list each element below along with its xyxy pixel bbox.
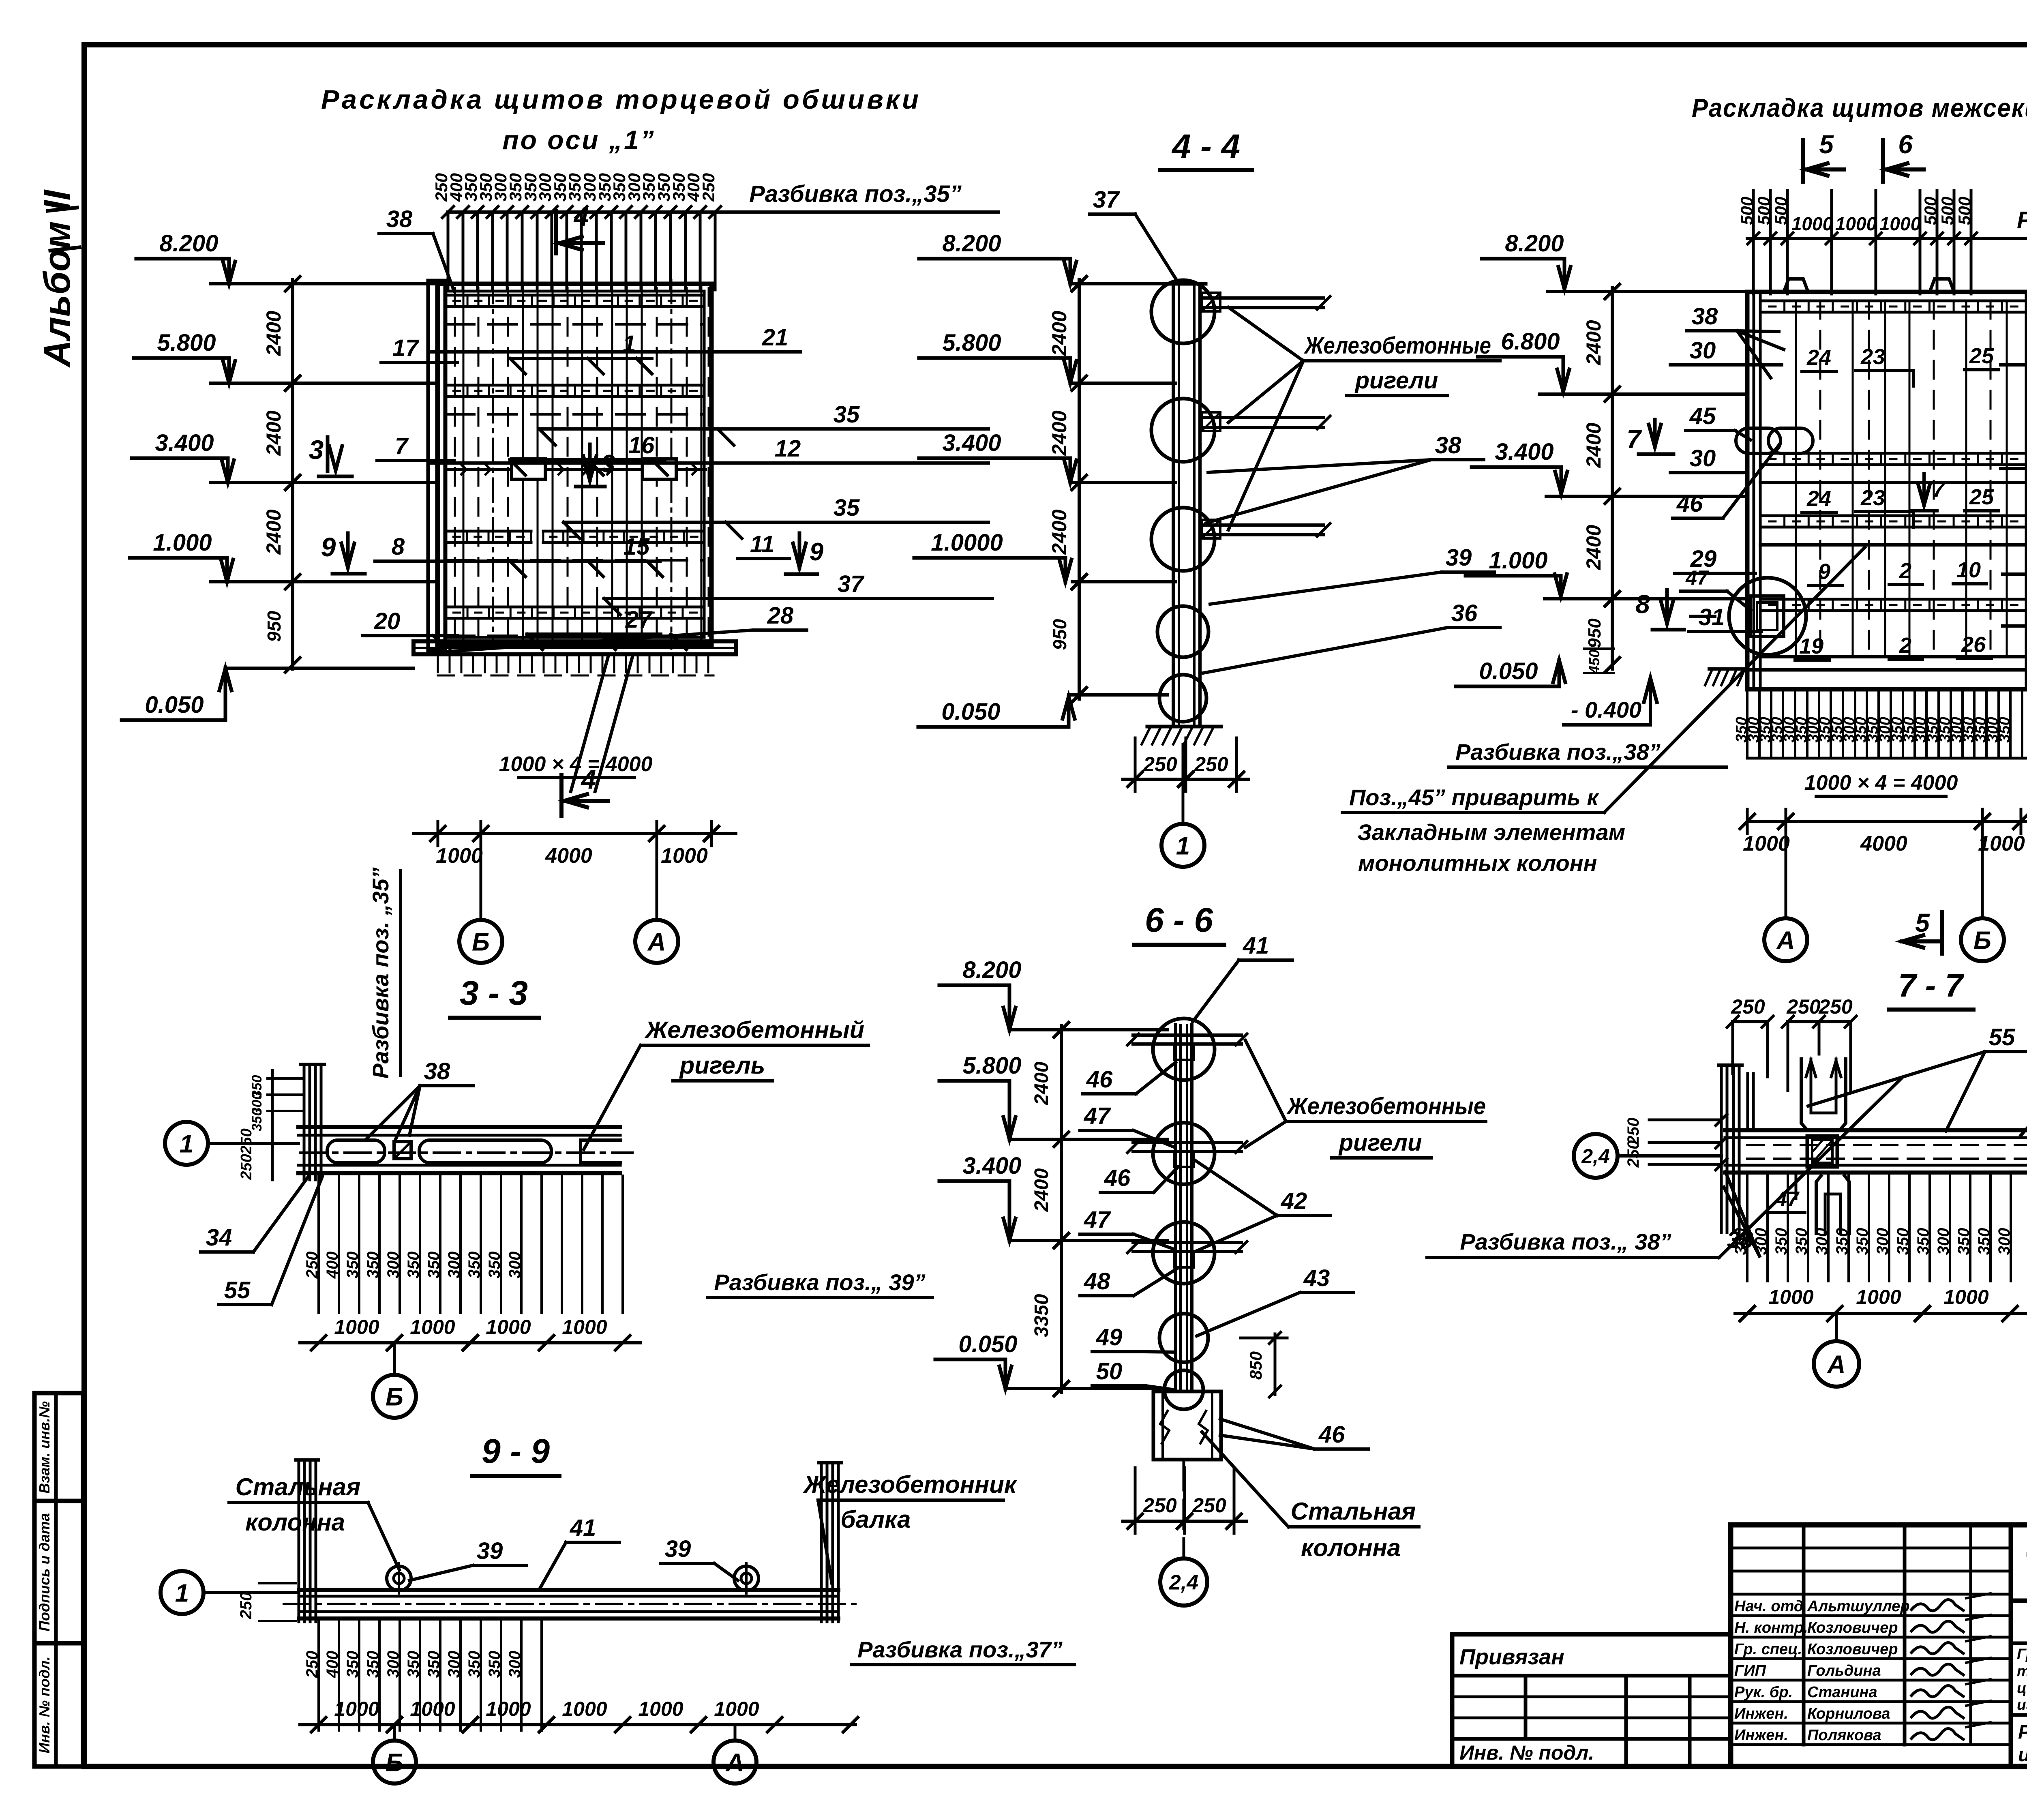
svg-text:19: 19 [1799,634,1823,658]
svg-text:Б: Б [386,1383,403,1411]
svg-text:ГИП: ГИП [1734,1662,1766,1679]
svg-text:24: 24 [1806,345,1831,370]
svg-text:и межсекционной обшивок: и межсекционной обшивок [2018,1744,2027,1766]
svg-text:250: 250 [1786,995,1821,1018]
view6 axis bubble 1 [161,1571,204,1614]
view3 level lines [1547,290,1747,293]
svg-text:6.800: 6.800 [1501,328,1560,355]
view1 level lines [211,282,438,285]
svg-text:Стальная: Стальная [1291,1498,1416,1525]
view6 axis bubbles Б А [393,1725,396,1741]
svg-text:0.050: 0.050 [1479,658,1538,684]
svg-text:2400: 2400 [1031,1168,1052,1212]
svg-text:300: 300 [506,1651,524,1678]
view5 left small dims [268,1077,303,1080]
svg-text:350: 350 [364,1252,382,1279]
svg-text:1000: 1000 [1879,213,1921,234]
svg-text:250: 250 [1143,753,1177,776]
svg-text:37: 37 [838,571,865,597]
svg-text:30: 30 [1690,337,1716,364]
view3 horizontal floor bands [1760,300,2026,302]
svg-text:Н. контр.: Н. контр. [1734,1619,1808,1636]
view1 dashed line under top band [446,323,704,326]
view7 leader [1202,1432,1288,1527]
svg-text:Альбом II: Альбом II [36,189,78,368]
svg-text:А: А [1776,926,1795,954]
svg-text:1000: 1000 [410,1316,455,1338]
svg-text:1000: 1000 [714,1698,759,1720]
view5 below-bar dim lines [317,1176,320,1313]
view1 axis lines down to bubbles [480,846,482,920]
view1 axis bubble Б [459,920,502,963]
svg-text:ригель: ригель [679,1052,765,1079]
view1 section mark 3 (inner) [588,444,592,480]
view5 center dash-dot axis [300,1151,632,1154]
view2 hatch squares at joints [1202,293,1220,311]
svg-text:350: 350 [1975,1228,1993,1255]
svg-text:0.050: 0.050 [941,699,1000,725]
svg-text:2,4: 2,4 [1169,1571,1198,1595]
svg-text:1: 1 [180,1130,193,1158]
svg-text:35: 35 [834,495,860,521]
svg-text:5.800: 5.800 [962,1053,1021,1079]
svg-text:1000: 1000 [1791,213,1833,234]
svg-text:450: 450 [1586,650,1603,674]
view8 left column [1720,1065,1723,1233]
title block top border [1731,1522,2027,1528]
view7 dim 850 [1274,1334,1277,1395]
svg-text:1000: 1000 [410,1698,455,1720]
svg-text:31: 31 [1699,604,1725,630]
svg-text:Козловичер: Козловичер [1807,1619,1898,1636]
svg-text:тиляторами 3ВГ25 капельная с с: тиляторами 3ВГ25 капельная с сек- [2017,1663,2027,1679]
view6 left end column [298,1460,300,1622]
view6 dim row 1000s [300,1723,855,1726]
view1 horizontal band at level 2 [446,384,704,387]
svg-text:Гр. спец.: Гр. спец. [1734,1641,1802,1658]
view1 horizontal band at level 4 [446,606,704,609]
svg-text:250: 250 [1818,995,1853,1018]
view7 small hatch boxes [1174,1044,1193,1060]
view7 dim chain [1060,1026,1063,1393]
svg-text:1.000: 1.000 [1489,547,1547,574]
view1 panel dashed panel edges [454,288,456,641]
view3 left vertical dimension chain [1611,288,1614,669]
svg-text:8: 8 [392,534,405,560]
svg-text:2400: 2400 [1048,509,1071,555]
view5 small square fixture [394,1142,411,1159]
view1 panel outline [438,284,711,645]
svg-text:24: 24 [1806,487,1831,511]
view3 internal dashed lines [1819,301,1821,657]
view3 top dim chain line [1747,237,2027,240]
svg-text:500: 500 [1955,197,1974,225]
svg-text:Железобетонник: Железобетонник [803,1471,1018,1498]
svg-text:39: 39 [1446,544,1472,571]
svg-text:37: 37 [1093,187,1120,213]
view5 axis bubble 1 [165,1122,208,1165]
svg-text:ригели: ригели [1354,367,1438,394]
view1 horizontal line of top dim chain / Razbivka leader [448,210,998,214]
svg-text:Альтшуллер: Альтшуллер [1807,1598,1910,1615]
view5 left column of section [303,1064,306,1180]
svg-text:25: 25 [1969,485,1994,509]
svg-text:2400: 2400 [1048,410,1071,456]
svg-text:250: 250 [237,1592,255,1620]
svg-text:350: 350 [249,1108,265,1132]
svg-text:Корнилова: Корнилова [1807,1705,1890,1722]
svg-text:35: 35 [834,401,860,428]
view8 left side dims 250/250 [1649,1119,1721,1121]
svg-text:350: 350 [344,1252,362,1279]
view2 ground hatch at base [1147,725,1221,729]
svg-text:Нач. отд: Нач. отд [1734,1598,1803,1615]
view7 fan leaders [1245,1040,1286,1121]
svg-text:3350: 3350 [1031,1294,1052,1337]
svg-text:38: 38 [1435,432,1461,459]
view1 section mark 4 (bottom) [559,775,564,816]
svg-text:500: 500 [1771,197,1790,225]
svg-text:10: 10 [1956,558,1981,582]
svg-text:Раскладка щитов межсекционной: Раскладка щитов межсекционной обшивки [1692,93,2027,122]
svg-text:350: 350 [465,1651,483,1678]
view1 leader lines to section 4 bottom [571,657,608,791]
svg-text:15: 15 [624,534,650,560]
view7 column shaft [1174,1025,1177,1391]
view7 dim 250 250 [1134,1468,1137,1533]
svg-text:45: 45 [1689,403,1716,429]
view8 axis bubble 2,4 left [1574,1134,1618,1178]
svg-text:9: 9 [1818,560,1830,584]
svg-text:4000: 4000 [1860,832,1907,855]
view5 right open channel [581,1140,620,1163]
view8 left wing plates [1746,1074,1749,1130]
view6 right end column [820,1463,823,1622]
svg-text:250: 250 [1194,753,1228,776]
view1 left mounting strip [428,281,445,650]
svg-text:Поз.„45” приварить к: Поз.„45” приварить к [1349,785,1599,810]
view5 axis bubble Б [393,1343,396,1374]
svg-text:500: 500 [1737,197,1756,225]
svg-text:Раскладка щитов торцевой обшив: Раскладка щитов торцевой обшивки [321,84,921,114]
svg-text:9 - 9: 9 - 9 [482,1432,550,1470]
svg-text:55: 55 [1989,1024,2015,1050]
svg-text:350: 350 [344,1651,362,1678]
svg-text:1000: 1000 [334,1698,379,1720]
title block privyazan box [1452,1634,1731,1766]
svg-text:9: 9 [321,532,336,562]
svg-text:1000: 1000 [1978,832,2025,855]
svg-text:250: 250 [303,1252,321,1279]
svg-text:250: 250 [1624,1140,1642,1168]
svg-text:47: 47 [1084,1207,1111,1233]
view1 horizontal band at level 3 [446,530,531,533]
svg-text:250: 250 [1192,1494,1226,1517]
svg-text:2400: 2400 [1582,525,1605,570]
svg-text:Рук. бр.: Рук. бр. [1734,1684,1793,1701]
signature squiggles [1911,1599,1963,1611]
svg-text:из железобетонных элементов: из железобетонных элементов [2017,1696,2027,1713]
svg-text:49: 49 [1096,1324,1123,1351]
svg-text:3.400: 3.400 [942,430,1001,456]
svg-text:34: 34 [206,1224,232,1251]
svg-text:350: 350 [1793,1228,1811,1255]
view2 detail circles on column [1151,280,1215,343]
svg-text:3: 3 [601,450,615,478]
svg-text:1000: 1000 [562,1316,607,1338]
svg-text:7: 7 [1933,477,1946,502]
svg-text:Инв. № подл.: Инв. № подл. [36,1656,53,1753]
view3 ground hatch left [1709,667,1745,671]
svg-text:Инжен.: Инжен. [1734,1705,1788,1722]
svg-text:350: 350 [364,1651,382,1678]
svg-text:23: 23 [1860,486,1885,510]
svg-text:4000: 4000 [545,844,592,868]
svg-text:300: 300 [1995,1228,2013,1255]
svg-text:7: 7 [1626,424,1642,454]
svg-text:950: 950 [1049,619,1070,650]
svg-text:Раскладка щитов торцевой: Раскладка щитов торцевой [2018,1721,2027,1743]
view3 section mark 5 bottom [1940,912,1944,954]
svg-text:50: 50 [1096,1358,1123,1385]
view6 bolts [387,1566,411,1591]
svg-text:250: 250 [238,1154,255,1180]
svg-text:5: 5 [1915,908,1930,937]
svg-text:Полякова: Полякова [1807,1727,1881,1744]
view8 lower U channel [1816,1176,1821,1233]
view7 axis bubble 2,4 [1183,1462,1185,1558]
svg-text:350: 350 [405,1252,422,1279]
svg-text:2400: 2400 [1582,422,1605,468]
svg-text:1000: 1000 [486,1316,531,1338]
svg-text:Взам. инв.№: Взам. инв.№ [36,1401,53,1494]
svg-text:250: 250 [1731,995,1765,1018]
view1 section mark 9 (inner right) [798,533,801,568]
svg-text:8.200: 8.200 [159,230,218,257]
svg-text:46: 46 [1318,1421,1345,1448]
svg-text:3.400: 3.400 [155,430,214,456]
svg-text:Б: Б [472,928,490,956]
view1 axis bubble А [635,920,678,963]
svg-text:2: 2 [1899,633,1911,658]
svg-text:Железобетонные: Железобетонные [1303,332,1491,359]
svg-text:350: 350 [425,1252,443,1279]
svg-text:Разбивка поз. „40”: Разбивка поз. „40” [2017,207,2027,233]
svg-text:250: 250 [238,1128,255,1154]
view7 level lines [1009,1028,1168,1031]
view3 internal verticals [1795,301,1797,657]
svg-text:21: 21 [762,324,789,351]
view1 foundation tick row [437,654,439,672]
view7 detail circles [1153,1018,1215,1080]
svg-text:Разбивка поз.„ 38”: Разбивка поз.„ 38” [1460,1229,1671,1254]
svg-text:1000: 1000 [1943,1286,1988,1308]
svg-text:1000 × 4 = 4000: 1000 × 4 = 4000 [499,752,653,776]
svg-text:6: 6 [1898,130,1913,159]
view1 horizontal band at top [446,294,704,297]
svg-text:17: 17 [392,335,420,361]
svg-text:А: А [725,1749,744,1777]
view3 bottom band [1760,655,2026,658]
svg-text:46: 46 [1676,491,1703,517]
view8 dashed lines in bar [1747,1144,2027,1146]
svg-text:300: 300 [1874,1228,1892,1255]
svg-text:350: 350 [1853,1228,1871,1255]
svg-text:0.050: 0.050 [958,1331,1017,1357]
view3 below-panel rotated dims [1746,689,1748,758]
svg-text:350: 350 [1894,1228,1912,1255]
svg-text:Б: Б [386,1749,403,1777]
svg-text:А: А [1827,1351,1846,1378]
svg-text:Гольдина: Гольдина [1807,1662,1881,1679]
view1 panel internal dash-dot axes [492,280,494,649]
svg-text:300: 300 [1813,1228,1831,1255]
svg-text:Железобетонные: Железобетонные [1286,1093,1486,1119]
svg-text:Разбивка поз.„38”: Разбивка поз.„38” [1455,739,1661,765]
view5 dim row 1000s [300,1341,641,1344]
svg-text:400: 400 [324,1252,341,1279]
view3 section mark 5 (top) [1801,140,1805,182]
left stamp boxes column [34,1393,83,1766]
svg-text:Станина: Станина [1807,1684,1877,1701]
svg-text:А: А [647,928,666,956]
svg-text:колонна: колонна [1301,1534,1401,1561]
svg-text:500: 500 [1754,197,1773,225]
view2 ribs (beams) right of column [1200,296,1324,300]
svg-text:2: 2 [1899,559,1911,583]
svg-text:Закладным элементам: Закладным элементам [1357,819,1625,845]
view2 column shaft [1172,284,1175,727]
svg-text:2400: 2400 [262,311,285,356]
svg-text:42: 42 [1281,1188,1307,1214]
view8 center square with hatch [1807,1136,1837,1167]
svg-text:16: 16 [628,432,655,459]
view1 section mark 4 (top) [554,211,558,253]
view1 panel internal verticals [463,286,465,643]
svg-text:300: 300 [445,1651,463,1678]
svg-text:350: 350 [1996,717,2013,742]
svg-text:2400: 2400 [1031,1061,1052,1105]
svg-text:Козловичер: Козловичер [1807,1641,1898,1658]
svg-text:300: 300 [384,1252,402,1279]
svg-text:23: 23 [1860,345,1885,369]
svg-text:1.000: 1.000 [153,529,212,556]
svg-text:950: 950 [264,611,285,642]
svg-text:Инв. № подл.: Инв. № подл. [1459,1741,1594,1764]
svg-text:38: 38 [1692,303,1718,330]
svg-text:1000: 1000 [1743,832,1790,855]
svg-text:500: 500 [1938,197,1957,225]
svg-text:250: 250 [1142,1494,1177,1517]
svg-text:2400: 2400 [1048,311,1071,356]
view6 bar outline [299,1588,838,1592]
svg-text:3 - 3: 3 - 3 [460,974,528,1012]
svg-text:- 0.400: - 0.400 [1571,697,1641,722]
svg-text:250: 250 [699,173,718,202]
svg-text:4: 4 [573,202,589,232]
svg-text:350: 350 [1914,1228,1932,1255]
svg-text:Разбивка поз.„ 39”: Разбивка поз.„ 39” [714,1269,925,1295]
svg-text:27: 27 [625,607,653,633]
svg-text:46: 46 [1086,1066,1113,1093]
view5 bar outline [298,1125,620,1129]
svg-text:350: 350 [1833,1228,1851,1255]
svg-text:монолитных колонн: монолитных колонн [1358,850,1597,876]
svg-text:300: 300 [506,1252,524,1279]
svg-text:Б: Б [1973,926,1991,954]
svg-text:7: 7 [395,433,409,459]
view5 rounded slots in bar [327,1140,385,1163]
svg-text:5: 5 [1819,130,1834,159]
svg-text:1000: 1000 [562,1698,607,1720]
view3 section mark 7 inner [1922,474,1926,505]
svg-text:1: 1 [175,1579,189,1607]
svg-text:41: 41 [1243,933,1269,959]
view1 left vertical dimension chain 2400/950 [291,280,294,669]
svg-text:7 - 7: 7 - 7 [1898,967,1965,1003]
svg-text:47: 47 [1084,1103,1111,1129]
svg-text:36: 36 [1451,600,1478,626]
view3 axis lines and bubbles [1785,834,1787,917]
svg-text:26: 26 [1961,632,1986,657]
svg-text:Градирня четырехсекционная с в: Градирня четырехсекционная с вен- [2017,1646,2027,1662]
svg-text:8.200: 8.200 [962,957,1021,983]
view6 leader [818,1500,832,1583]
view3 small anchor box in circle [1751,596,1784,637]
svg-text:350: 350 [486,1651,504,1678]
svg-text:1000: 1000 [334,1316,379,1338]
svg-text:1000: 1000 [436,844,483,868]
svg-text:300: 300 [1935,1228,1952,1255]
view1 tie rod with turnbuckles [445,468,705,471]
svg-text:4 - 4: 4 - 4 [1171,127,1240,165]
svg-text:43: 43 [1303,1265,1330,1291]
svg-text:950: 950 [1585,618,1605,648]
svg-text:47: 47 [1685,566,1709,589]
view8 below-bar dim lines [1746,1176,1748,1281]
svg-text:2400: 2400 [262,509,285,555]
svg-text:48: 48 [1084,1268,1110,1295]
view1 bottom dimension line [414,832,736,835]
view6 leader to bolt [368,1503,399,1570]
svg-text:38: 38 [424,1058,450,1085]
svg-text:балка: балка [840,1506,911,1533]
svg-text:350: 350 [425,1651,443,1678]
svg-text:350: 350 [486,1252,504,1279]
svg-text:1000: 1000 [1768,1286,1813,1308]
svg-text:1.0000: 1.0000 [931,529,1003,556]
svg-text:350: 350 [465,1252,483,1279]
svg-text:500: 500 [1921,197,1940,225]
view8 axis bubble А [1835,1314,1838,1341]
view3 big detail circle bottom-left [1729,578,1806,655]
svg-text:300: 300 [445,1252,463,1279]
svg-text:6 - 6: 6 - 6 [1145,901,1213,939]
svg-text:1000: 1000 [486,1698,531,1720]
svg-text:колонна: колонна [245,1509,345,1536]
view2 leaders from text to ribs [1228,307,1303,361]
svg-text:8.200: 8.200 [942,230,1001,257]
svg-text:ригели: ригели [1338,1130,1422,1156]
signature table [1728,1525,1733,1766]
view2 vertical dimension chain [1078,280,1081,699]
view6 center dash-dot axis [284,1603,855,1605]
svg-text:850: 850 [1246,1351,1265,1380]
view3 section mark 6 (top) [1881,140,1885,182]
svg-text:3: 3 [309,435,324,465]
svg-text:5.800: 5.800 [942,330,1001,356]
view5 leader from text to bar [584,1045,641,1149]
